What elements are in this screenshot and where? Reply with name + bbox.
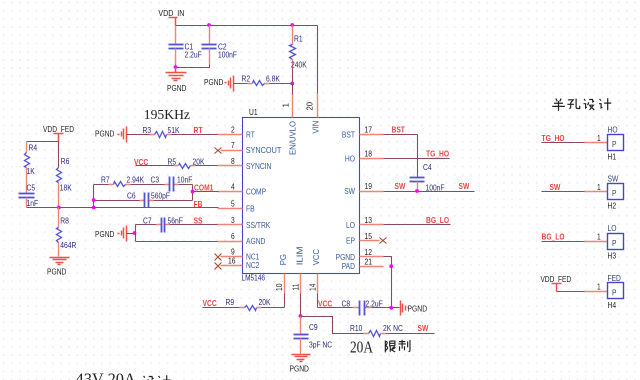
junction rail/FB xyxy=(92,206,96,210)
svg-text:PAD: PAD xyxy=(342,262,355,271)
svg-text:20A: 20A xyxy=(350,338,373,357)
svg-text:R2: R2 xyxy=(242,75,251,84)
svg-text:P: P xyxy=(612,289,617,298)
junction COM1 xyxy=(191,190,195,194)
svg-text:P: P xyxy=(612,239,617,248)
svg-text:20K: 20K xyxy=(259,298,271,307)
resistor R2 pin stubs xyxy=(248,83,270,85)
capacitor C6 pin stubs xyxy=(140,200,154,202)
svg-text:H4: H4 xyxy=(608,301,617,310)
wire R9 to PG pin xyxy=(284,294,286,308)
svg-text:1: 1 xyxy=(597,134,601,143)
svg-text:LO: LO xyxy=(346,221,355,230)
svg-text:21: 21 xyxy=(365,257,373,266)
capacitor C7 pin stubs xyxy=(157,224,170,226)
junction R6/R8/FB xyxy=(57,206,61,210)
svg-text:4: 4 xyxy=(231,183,235,192)
no-connect X pin 7 xyxy=(215,148,222,154)
svg-text:SW: SW xyxy=(395,182,406,191)
wire H4 row xyxy=(557,291,585,293)
svg-text:1: 1 xyxy=(597,233,601,242)
svg-text:SW: SW xyxy=(418,324,429,333)
svg-text:11: 11 xyxy=(291,283,300,290)
connector H1 pin 1 xyxy=(585,142,608,144)
capacitor C7 56nF xyxy=(136,216,218,232)
U1 pin 6 AGND xyxy=(218,232,266,246)
svg-text:BST: BST xyxy=(342,130,355,139)
resistor R7 pin stubs xyxy=(109,184,131,186)
U1 pin 17 BST xyxy=(342,126,384,140)
junction rail/C6 xyxy=(92,198,96,202)
svg-text:SYNCIN: SYNCIN xyxy=(246,162,271,171)
svg-text:15: 15 xyxy=(365,232,373,241)
U1 pin 18 HO xyxy=(345,150,384,164)
svg-text:51K: 51K xyxy=(168,126,180,135)
svg-text:HO: HO xyxy=(608,125,618,134)
ground PGND at R3 (sideways) xyxy=(95,127,127,143)
wire VCC pin to C8 xyxy=(317,294,319,308)
capacitor C6 560pF xyxy=(94,192,193,208)
U1 pin 3 SS/TRK xyxy=(218,216,271,230)
connector H2 pin 1 xyxy=(585,191,608,193)
junction C8/PAD xyxy=(389,306,393,310)
svg-text:C6: C6 xyxy=(127,192,136,201)
svg-text:PGND: PGND xyxy=(408,304,428,313)
junction C2 tap xyxy=(207,23,211,27)
svg-text:SW: SW xyxy=(459,182,470,191)
svg-text:1K: 1K xyxy=(27,167,36,176)
wire VIN drop xyxy=(317,26,319,94)
wire BST to C4 xyxy=(417,135,419,178)
ground PGND under C9 xyxy=(290,355,311,374)
svg-text:VIN: VIN xyxy=(311,120,320,133)
svg-text:2.94K: 2.94K xyxy=(127,176,145,185)
U1 pin 8 SYNCIN xyxy=(218,157,272,171)
resistor R10 2K NC xyxy=(350,324,435,337)
resistor R9 pin stubs xyxy=(240,307,262,309)
svg-text:LO: LO xyxy=(608,224,617,233)
resistor R1 xyxy=(290,26,308,70)
svg-text:U1: U1 xyxy=(249,108,258,117)
svg-text:R8: R8 xyxy=(60,217,69,226)
svg-text:C5: C5 xyxy=(27,184,36,193)
junction ILIM node xyxy=(299,314,303,318)
svg-text:TG_HO: TG_HO xyxy=(426,150,450,159)
svg-text:C7: C7 xyxy=(143,216,152,225)
ground PGND under R8 xyxy=(47,258,70,277)
U1 pin 14 VCC xyxy=(308,249,321,294)
svg-text:PGND: PGND xyxy=(336,253,355,262)
svg-text:BST: BST xyxy=(392,126,405,135)
U1 pin 11 ILIM xyxy=(291,246,304,293)
wire HO row xyxy=(384,158,450,160)
svg-text:14: 14 xyxy=(308,283,317,291)
svg-text:43V 20A: 43V 20A xyxy=(76,370,136,380)
junction SS rail xyxy=(133,231,137,235)
svg-text:VCC: VCC xyxy=(318,299,332,308)
svg-text:19: 19 xyxy=(365,182,373,191)
junction R1 tap xyxy=(290,23,294,27)
connector H1 xyxy=(608,125,624,161)
U1 pin 7 SYNCOUT xyxy=(221,141,282,155)
wire ILIM drop xyxy=(300,294,302,317)
svg-text:P: P xyxy=(612,189,617,198)
svg-text:R10: R10 xyxy=(350,324,363,333)
svg-text:R7: R7 xyxy=(101,176,110,185)
junction PAD node xyxy=(389,264,393,268)
wire BG_LO row xyxy=(384,224,451,226)
U1 pin 1 EN/UVLO xyxy=(282,94,298,156)
U1 pin 15 EP xyxy=(346,232,380,246)
svg-text:C4: C4 xyxy=(423,163,432,172)
svg-text:7: 7 xyxy=(231,141,235,150)
resistor R10 pin stubs xyxy=(364,333,386,335)
capacitor C5 1nF xyxy=(19,184,39,209)
capacitor C1 xyxy=(169,26,202,65)
svg-text:56nF: 56nF xyxy=(168,216,183,225)
svg-text:3pF NC: 3pF NC xyxy=(309,341,332,350)
U1 pin 4 COMP xyxy=(218,183,267,197)
ground PGND at R2 (sideways) xyxy=(204,76,234,92)
svg-text:SW: SW xyxy=(550,183,561,192)
junction SW/C4 xyxy=(415,189,419,193)
no-connect X pin 9 xyxy=(215,254,222,261)
svg-text:P: P xyxy=(612,140,617,149)
svg-text:LM5146: LM5146 xyxy=(242,274,266,283)
U1 pin 10 PG xyxy=(275,254,288,294)
svg-text:EP: EP xyxy=(346,237,355,246)
capacitor C2 xyxy=(202,26,238,65)
text 半孔设计 (title) xyxy=(552,98,611,111)
resistor R7 2.94K xyxy=(94,176,170,187)
svg-text:BG_LO: BG_LO xyxy=(542,233,566,242)
ground PGND at C7 (sideways) xyxy=(95,226,136,242)
svg-text:1: 1 xyxy=(597,282,601,291)
U1 pin 12 PGND xyxy=(336,248,384,262)
svg-text:NC2: NC2 xyxy=(246,261,260,270)
svg-text:EN/UVLO: EN/UVLO xyxy=(288,121,297,155)
svg-text:1nF: 1nF xyxy=(27,199,39,208)
svg-text:PGND: PGND xyxy=(290,365,309,374)
resistor R2 6.8K xyxy=(234,75,293,86)
svg-text:RT: RT xyxy=(194,126,203,135)
resistor R5 pin stubs xyxy=(174,165,196,167)
U1 pin 2 RT xyxy=(218,126,255,140)
svg-text:SYNCOUT: SYNCOUT xyxy=(246,146,282,155)
svg-text:FB: FB xyxy=(246,204,255,213)
svg-text:SW: SW xyxy=(608,174,619,183)
U1 pin 19 SW xyxy=(344,182,383,196)
svg-text:H1: H1 xyxy=(608,153,617,162)
svg-text:R4: R4 xyxy=(29,144,38,153)
connector H4 xyxy=(608,274,624,310)
svg-text:PGND: PGND xyxy=(95,230,114,239)
resistor R4 1K xyxy=(25,142,38,193)
wire H2 row xyxy=(542,191,585,193)
svg-text:17: 17 xyxy=(365,126,373,135)
wire H3 row xyxy=(542,241,585,243)
svg-text:PGND: PGND xyxy=(204,78,223,87)
svg-text:16: 16 xyxy=(228,256,236,265)
power port VDD_FED (H4) xyxy=(541,275,572,292)
svg-text:R9: R9 xyxy=(226,298,235,307)
svg-text:RT: RT xyxy=(246,130,255,139)
svg-text:H3: H3 xyxy=(608,251,617,260)
U1 pin 21 PAD xyxy=(342,257,384,271)
svg-text:8: 8 xyxy=(231,157,235,166)
svg-text:PGND: PGND xyxy=(95,130,114,139)
svg-text:R3: R3 xyxy=(143,126,152,135)
op-amp U1 LM5146 body xyxy=(242,108,360,283)
U1 pin 9 NC1 xyxy=(221,248,260,262)
wire C3 elbow to COMP xyxy=(192,185,194,201)
wire PGND/PAD joiner xyxy=(384,257,392,267)
wire PAD drop xyxy=(391,267,393,308)
power port VDD_FED (left) xyxy=(43,125,74,142)
svg-text:HO: HO xyxy=(345,154,355,163)
svg-text:10nF: 10nF xyxy=(177,176,192,185)
svg-text:2: 2 xyxy=(231,126,235,135)
power port VDD_IN xyxy=(158,9,184,26)
no-connect X pin 15 xyxy=(380,238,387,244)
svg-text:VDD_IN: VDD_IN xyxy=(158,9,184,18)
svg-text:1: 1 xyxy=(282,103,291,108)
junction C1 ground tap xyxy=(174,65,178,69)
wire AGND row xyxy=(136,241,218,243)
resistor R6 18K xyxy=(57,142,73,208)
svg-text:6.8K: 6.8K xyxy=(266,75,280,84)
svg-text:20: 20 xyxy=(306,101,315,110)
svg-text:5: 5 xyxy=(231,200,235,209)
svg-text:6: 6 xyxy=(231,232,235,241)
svg-text:VCC: VCC xyxy=(312,249,321,265)
svg-text:BG_LO: BG_LO xyxy=(426,216,450,225)
no-connect X pin 16 xyxy=(215,263,222,270)
wire C1/C2 bottom rail xyxy=(176,65,210,68)
connector H3 pin 1 xyxy=(585,241,608,243)
svg-text:COMP: COMP xyxy=(246,188,267,197)
ground PGND under C1 xyxy=(166,68,187,94)
wire EN drop to pin 1 xyxy=(292,84,294,95)
svg-text:PGND: PGND xyxy=(167,84,186,93)
svg-text:VDD_FED: VDD_FED xyxy=(541,275,572,284)
U1 pin 16 NC2 xyxy=(221,256,260,270)
svg-text:1: 1 xyxy=(597,183,601,192)
svg-text:10: 10 xyxy=(275,283,284,291)
svg-text:ILIM: ILIM xyxy=(296,246,305,265)
wire H1 row xyxy=(542,142,585,144)
svg-text:AGND: AGND xyxy=(246,237,265,246)
svg-text:TG_HO: TG_HO xyxy=(542,134,566,143)
capacitor C3 10nF xyxy=(151,176,193,192)
text 43V 20A 设计 (bottom, clipped) xyxy=(76,370,171,380)
svg-text:VCC: VCC xyxy=(203,299,217,308)
ground PGND at C8 (sideways, mirrored) xyxy=(401,301,428,316)
resistor R8 464R xyxy=(57,208,77,257)
svg-text:VDD_FED: VDD_FED xyxy=(43,125,74,134)
wire BST row xyxy=(384,134,418,136)
capacitor C8 2.2uF xyxy=(318,299,400,315)
wire VDD_FED tee xyxy=(27,142,59,153)
svg-text:2.2uF: 2.2uF xyxy=(185,51,202,60)
wire FB row to pin 5 xyxy=(27,207,219,209)
svg-text:PG: PG xyxy=(279,254,288,265)
wire SS/AGND rail xyxy=(135,225,137,242)
svg-text:9: 9 xyxy=(231,248,235,257)
capacitor C3 pin stubs xyxy=(165,184,179,186)
wire R1 to EN node xyxy=(292,69,294,84)
wire ILIM to R10 elbow xyxy=(301,317,351,334)
resistor R5 20K xyxy=(136,157,218,168)
svg-text:SS/TRK: SS/TRK xyxy=(246,221,271,230)
svg-text:R1: R1 xyxy=(294,35,303,44)
wire COM1 to pin 4 xyxy=(193,191,219,193)
junction EN node xyxy=(290,82,294,86)
svg-text:FED: FED xyxy=(608,274,621,283)
U1 pin 5 FB xyxy=(218,200,256,214)
wire VDD_IN top rail xyxy=(176,25,318,27)
svg-text:C3: C3 xyxy=(151,176,160,185)
svg-text:NC1: NC1 xyxy=(246,252,260,261)
capacitor C4 100nF xyxy=(410,163,445,192)
svg-text:195KHz: 195KHz xyxy=(144,107,190,122)
svg-text:C8: C8 xyxy=(342,299,351,308)
svg-text:SS: SS xyxy=(194,216,203,225)
svg-text:560pF: 560pF xyxy=(151,192,170,201)
wire SW row xyxy=(384,191,475,193)
svg-text:3: 3 xyxy=(231,216,235,225)
svg-text:464R: 464R xyxy=(60,241,76,250)
svg-text:18K: 18K xyxy=(60,184,72,193)
svg-text:SW: SW xyxy=(344,187,355,196)
svg-text:H2: H2 xyxy=(608,202,617,211)
text 20A 限制 xyxy=(350,338,410,357)
svg-text:PGND: PGND xyxy=(47,268,66,277)
svg-text:2K NC: 2K NC xyxy=(383,324,403,333)
capacitor C9 3pF NC xyxy=(294,317,333,354)
wire FB rail vertical xyxy=(93,185,95,208)
connector H4 pin 1 xyxy=(585,291,608,293)
svg-text:R6: R6 xyxy=(61,157,70,166)
svg-text:18: 18 xyxy=(365,150,373,159)
connector H3 xyxy=(608,224,624,260)
connector H2 xyxy=(608,174,624,210)
svg-text:13: 13 xyxy=(365,216,373,225)
svg-text:C9: C9 xyxy=(309,323,318,332)
resistor R9 20K xyxy=(203,298,285,311)
capacitor C8 pin stubs xyxy=(353,307,372,309)
resistor R3 pin stubs xyxy=(150,134,172,136)
U1 pin 13 LO xyxy=(346,216,384,230)
svg-text:240K: 240K xyxy=(291,61,307,70)
U1 pin 20 VIN xyxy=(306,94,321,134)
svg-text:12: 12 xyxy=(365,248,373,257)
resistor R3 51K xyxy=(127,126,218,138)
svg-text:100nF: 100nF xyxy=(218,51,237,60)
